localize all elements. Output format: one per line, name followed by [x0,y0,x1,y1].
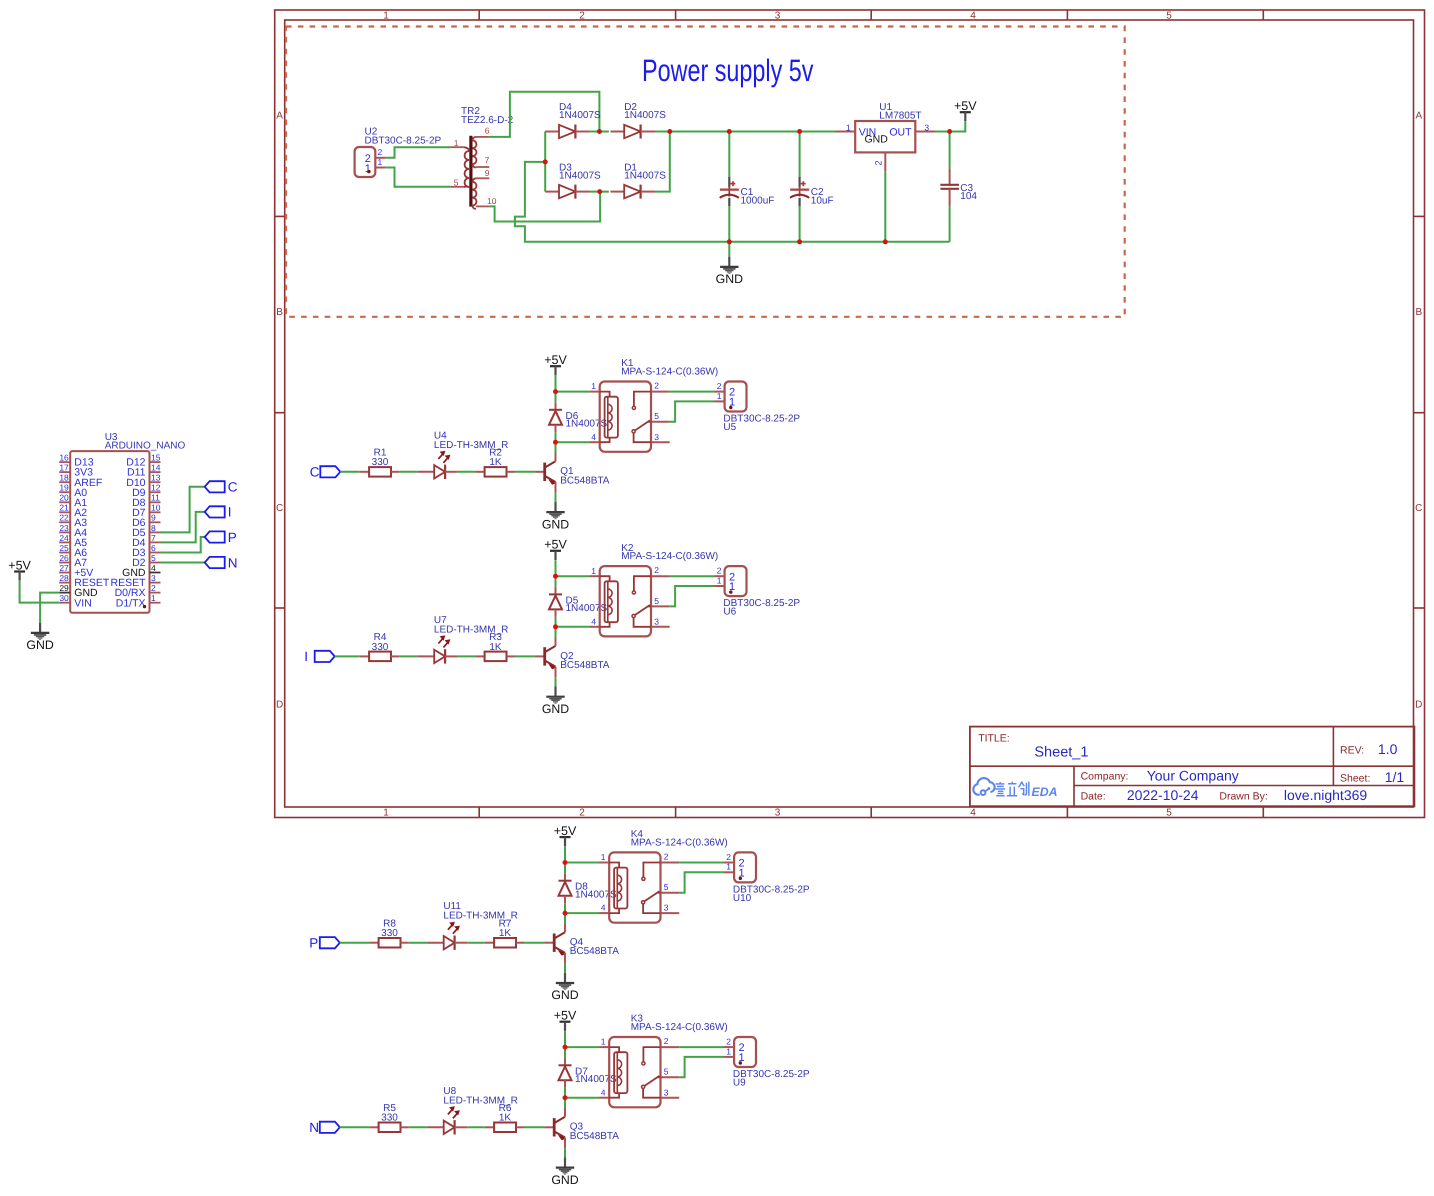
net label N row [309,1120,340,1135]
wire U4 to R2 [458,471,476,473]
svg-text:5: 5 [664,882,669,892]
resistor R6 1K [485,1103,524,1132]
svg-text:P: P [309,936,318,951]
svg-text:MPA-S-124-C(0.36W): MPA-S-124-C(0.36W) [621,367,718,378]
svg-text:4: 4 [591,616,596,626]
svg-text:Sheet:: Sheet: [1340,772,1370,784]
svg-text:18: 18 [59,473,69,483]
junction dots K2 row [553,574,558,579]
svg-text:1K: 1K [489,457,502,468]
svg-text:ARDUINO_NANO: ARDUINO_NANO [105,441,186,452]
wire top rail segment D4-D2 [590,131,609,133]
svg-text:1N4007S: 1N4007S [624,110,666,121]
svg-text:9: 9 [151,513,156,523]
wire K2 pin1 [556,575,591,577]
svg-text:19: 19 [59,483,69,493]
LED U7 LED-TH-3MM_R [418,615,508,664]
svg-text:27: 27 [59,563,69,573]
svg-text:GND: GND [551,1173,578,1187]
wire K4 pin5 to U10 pin1 [679,872,724,892]
svg-text:3: 3 [664,903,669,913]
svg-text:Power supply 5v: Power supply 5v [642,53,814,88]
junction dots power rails [727,129,732,134]
svg-text:Company:: Company: [1081,771,1129,783]
svg-text:VIN: VIN [74,597,92,609]
diode D1 1N4007S [610,162,666,198]
svg-text:2: 2 [717,566,722,576]
stub K3 pin1 [600,1046,610,1048]
wire node to Q1 collector [555,442,557,452]
wire R2 to Q1 base [515,471,535,473]
svg-text:P: P [228,530,237,545]
svg-text:BC548BTA: BC548BTA [570,946,620,957]
svg-text:Sheet_1: Sheet_1 [1034,745,1088,761]
svg-text:29: 29 [59,583,69,593]
svg-text:MPA-S-124-C(0.36W): MPA-S-124-C(0.36W) [631,1022,728,1033]
svg-text:C: C [228,480,238,495]
svg-text:28: 28 [59,573,69,583]
svg-text:1N4007S: 1N4007S [575,1074,617,1085]
wire R4 to U7 [399,655,418,657]
resistor R5 330 [369,1103,408,1132]
wire bridge left vertical [544,132,546,192]
junction dots bridge [597,129,602,134]
relay K1 MPA-S-124-C(0.36W) [591,358,718,452]
+5V power flag K2 row [544,538,567,560]
svg-text:2: 2 [717,381,722,391]
+5V power flag main [954,99,977,121]
wire R1 to U4 [399,471,418,473]
diode D2 1N4007S [610,102,666,138]
svg-text:GND: GND [26,638,53,652]
svg-text:1: 1 [591,381,596,391]
svg-text:1.0: 1.0 [1378,741,1398,757]
svg-text:C: C [1415,503,1422,514]
svg-text:C: C [310,465,320,480]
wire +5V to K1 pin1 node [555,376,557,392]
wire U11 to R7 [467,942,485,944]
wire node to diode D5 [555,576,557,587]
relay K3 MPA-S-124-C(0.36W) [601,1014,728,1108]
svg-text:5: 5 [654,596,659,606]
wire bridge bottom segment D3-D1 [590,191,609,193]
svg-text:1K: 1K [499,928,512,939]
svg-text:1: 1 [591,566,596,576]
svg-text:EDA: EDA [1031,786,1057,800]
svg-text:1/1: 1/1 [1385,769,1405,785]
svg-text:N: N [228,555,238,570]
wire K2 pin4 [556,626,591,628]
svg-text:25: 25 [59,543,69,553]
wire Q3 emitter to ground [564,1148,566,1157]
title block [970,727,1415,807]
+5V power flag Arduino [8,558,31,580]
svg-text:4: 4 [151,563,156,573]
ground GND Q3 [551,1157,578,1186]
svg-text:BC548BTA: BC548BTA [560,475,610,486]
wire diode D8 to K4 pin4 node [564,903,566,913]
wire U2 pin1 to TR2 pin5 [386,168,451,187]
svg-text:+5V: +5V [954,99,977,113]
wire U7 to R3 [458,655,476,657]
wire C to R1 [340,471,360,473]
wire I to R4 [335,655,360,657]
svg-text:6: 6 [151,543,156,553]
+5V power flag K3 row [554,1009,577,1031]
svg-text:1N4007S: 1N4007S [624,170,666,181]
transformer TR2 [450,106,513,209]
svg-text:2: 2 [664,852,669,862]
svg-text:2: 2 [579,808,585,819]
wire TR2 pin6 to bridge top [490,92,600,137]
sheet border frame [275,10,1425,819]
svg-text:21: 21 [59,503,69,513]
+5V power flag K1 row [544,353,567,375]
wire R5 to U8 [409,1126,428,1128]
svg-text:U9: U9 [733,1078,746,1089]
wire +5V to Arduino VIN [20,581,60,603]
wire Arduino GND down [40,593,59,623]
wire +5V to K4 pin1 node [564,847,566,863]
svg-text:5: 5 [664,1067,669,1077]
svg-text:1K: 1K [489,642,502,653]
svg-text:330: 330 [372,457,389,468]
wire R6 to Q3 base [524,1126,544,1128]
svg-text:DBT30C-8.25-2P: DBT30C-8.25-2P [365,135,442,146]
svg-text:1: 1 [601,1037,606,1047]
svg-text:love.night369: love.night369 [1284,787,1368,803]
svg-text:10: 10 [151,503,161,513]
svg-text:Your Company: Your Company [1147,767,1239,783]
wire diode D7 to K3 pin4 node [564,1088,566,1098]
capacitor C1 1000uF [720,132,775,242]
stub K1 pin1 [590,391,600,393]
svg-text:11: 11 [151,493,160,503]
wire K4 pin1 [565,862,600,864]
svg-text:3: 3 [775,808,781,819]
svg-text:2: 2 [726,852,731,862]
relay K2 MPA-S-124-C(0.36W) [591,543,718,637]
wire K1 pin4 [556,441,591,443]
wire center tap jog to ground rail [515,162,950,242]
svg-text:1: 1 [151,593,156,603]
EasyEDA logo [973,778,1057,799]
resistor R3 1K [475,632,514,661]
diode D7 1N4007S [559,1058,618,1088]
stub K4 pin4 [600,912,610,914]
svg-text:B: B [1415,307,1422,318]
connector U5 DBT30C-8.25-2P [715,381,801,433]
svg-text:N: N [309,1120,319,1135]
junction dots K1 row [553,389,558,394]
svg-text:3: 3 [654,616,659,626]
svg-text:MPA-S-124-C(0.36W): MPA-S-124-C(0.36W) [631,838,728,849]
wire node to diode D6 [555,392,557,403]
wire K4 pin4 [565,912,600,914]
+5V power flag K4 row [554,824,577,846]
wire diode D6 to K1 pin4 node [555,432,557,442]
svg-text:10uF: 10uF [811,196,834,207]
connector U6 DBT30C-8.25-2P [715,566,801,618]
wire Q4 emitter to ground [564,964,566,973]
svg-text:OUT: OUT [889,126,912,138]
wire node to diode D7 [564,1047,566,1058]
ground GND Arduino [26,623,53,652]
svg-text:12: 12 [151,483,161,493]
resistor R7 1K [485,918,524,947]
net label I row [304,649,335,664]
wire +5V to K3 pin1 node [564,1031,566,1047]
svg-text:3: 3 [654,432,659,442]
svg-text:4: 4 [970,808,976,819]
svg-text:5: 5 [1166,10,1172,21]
svg-text:1: 1 [601,852,606,862]
wire diode D5 to K2 pin4 node [555,617,557,627]
wire TR2 pin10 under bridge [490,192,600,222]
svg-text:LM7805T: LM7805T [879,111,921,122]
transformer secondary winding pins 6 7 [476,136,490,138]
transistor Q4 BC548BTA [544,923,619,963]
wire bridge right vertical (D1 out) [655,132,670,192]
transformer core [469,136,472,207]
wire P to R8 [340,942,370,944]
stub K2 pin4 [590,626,600,628]
svg-text:9: 9 [485,168,490,178]
svg-text:104: 104 [960,191,977,202]
junction dots K3 row [563,1045,568,1050]
wire K1 pin5 to U5 pin1 [670,401,715,421]
svg-text:1: 1 [365,163,371,175]
svg-text:2: 2 [664,1036,669,1046]
svg-text:Date:: Date: [1081,791,1106,803]
svg-text:REV:: REV: [1340,744,1364,756]
svg-text:17: 17 [59,463,69,473]
svg-text:330: 330 [381,928,398,939]
svg-text:30: 30 [59,593,69,603]
ground GND Q1 [542,502,569,531]
svg-text:D: D [276,700,283,711]
svg-text:7: 7 [151,533,156,543]
ground GND Q2 [542,687,569,716]
svg-text:A: A [1415,111,1422,122]
ground GND Q4 [551,973,578,1002]
svg-text:BC548BTA: BC548BTA [570,1131,620,1142]
capacitor C2 10uF [790,132,834,242]
svg-text:23: 23 [59,523,69,533]
diode D8 1N4007S [559,873,618,903]
net label C row [310,465,341,480]
LED U4 LED-TH-3MM_R [418,430,508,479]
svg-text:4: 4 [970,10,976,21]
diode D4 1N4007S [545,102,601,138]
svg-text:U10: U10 [733,893,752,904]
wire node to Q4 collector [564,913,566,923]
wire Arduino D3 to net P [161,537,205,553]
svg-text:1: 1 [383,808,389,819]
svg-text:22: 22 [59,513,69,523]
regulator U1 LM7805T [835,102,935,171]
svg-text:Drawn By:: Drawn By: [1219,791,1267,803]
svg-text:3: 3 [151,573,156,583]
svg-text:2: 2 [579,10,585,21]
svg-text:BC548BTA: BC548BTA [560,660,610,671]
svg-text:GND: GND [865,134,889,146]
wire K3 pin1 [565,1046,600,1048]
svg-text:D: D [1415,700,1422,711]
net label N at Arduino [205,555,238,570]
wire node to diode D8 [564,863,566,874]
svg-text:D1/TX: D1/TX [116,597,146,609]
ground GND power supply [716,257,743,286]
svg-text:3: 3 [924,122,929,132]
svg-text:1: 1 [378,157,383,167]
wire R3 to Q2 base [515,655,535,657]
svg-text:4: 4 [601,1087,606,1097]
svg-text:4: 4 [601,903,606,913]
wire K3 pin2 to U9 pin2 [679,1046,724,1048]
wire Q1 emitter to ground [555,493,557,502]
svg-text:10: 10 [487,196,497,206]
svg-text:1K: 1K [499,1113,512,1124]
LED U8 LED-TH-3MM_R [427,1086,517,1135]
svg-text:330: 330 [381,1113,398,1124]
wire U1 pin2 to ground rail [884,171,886,242]
svg-text:13: 13 [151,473,161,483]
svg-text:+5V: +5V [8,558,31,572]
wire K1 pin1 [556,391,591,393]
svg-text:1N4007S: 1N4007S [575,889,617,900]
svg-text:+5V: +5V [554,1009,577,1023]
net label I at Arduino [205,505,232,520]
transistor Q1 BC548BTA [535,453,610,493]
svg-text:GND: GND [542,517,569,531]
wire K4 pin2 to U10 pin2 [679,862,724,864]
transistor Q2 BC548BTA [535,637,610,677]
connector U10 DBT30C-8.25-2P [724,852,810,904]
wire node to Q2 collector [555,627,557,637]
svg-text:1N4007S: 1N4007S [566,603,608,614]
wire K2 pin2 to U6 pin2 [670,575,715,577]
svg-text:A: A [276,111,283,122]
svg-text:14: 14 [151,463,161,473]
wire R8 to U11 [409,942,428,944]
svg-text:U5: U5 [723,422,736,433]
wire Q2 emitter to ground [555,677,557,686]
svg-text:16: 16 [59,453,69,463]
svg-text:26: 26 [59,553,69,563]
ground rail GND symbol [728,242,730,257]
wire Arduino D5 to net C [161,487,205,533]
svg-text:1: 1 [383,10,389,21]
net label P row [309,936,340,951]
relay K4 MPA-S-124-C(0.36W) [601,829,728,923]
wire Arduino D4 to net I [161,512,205,543]
svg-text:6: 6 [485,125,490,135]
power supply dashed boundary box [286,27,1125,317]
svg-text:2: 2 [378,147,383,157]
svg-text:2022-10-24: 2022-10-24 [1127,787,1199,803]
svg-text:2: 2 [654,381,659,391]
svg-text:15: 15 [151,453,161,463]
svg-text:GND: GND [716,272,743,286]
transistor Q3 BC548BTA [544,1108,619,1148]
svg-text:2: 2 [654,565,659,575]
diode D6 1N4007S [549,402,608,432]
svg-text:1: 1 [726,862,731,872]
net label C at Arduino [205,480,238,495]
wire node to Q3 collector [564,1098,566,1108]
svg-text:330: 330 [372,642,389,653]
resistor R2 1K [475,448,514,477]
stub K2 pin1 [590,575,600,577]
resistor R8 330 [369,918,408,947]
wire U8 to R6 [467,1126,485,1128]
diode D5 1N4007S [549,587,608,617]
svg-text:5: 5 [654,411,659,421]
svg-text:1: 1 [846,122,851,132]
svg-text:B: B [276,307,283,318]
capacitor C3 104 [940,132,977,242]
resistor R4 330 [360,632,399,661]
stub K1 pin4 [590,441,600,443]
wire K1 pin2 to U5 pin2 [670,391,715,393]
svg-text:8: 8 [151,523,156,533]
wire D2 to U1 VIN rail [655,131,835,133]
svg-text:C: C [276,503,283,514]
wire Arduino D2 to net N [161,562,205,564]
LED U11 LED-TH-3MM_R [427,901,517,950]
svg-text:5: 5 [151,553,156,563]
svg-text:TITLE:: TITLE: [978,732,1010,744]
svg-text:1: 1 [454,138,459,148]
svg-text:2: 2 [874,160,884,165]
wire K3 pin4 [565,1097,600,1099]
stub K3 pin4 [600,1097,610,1099]
resistor R1 330 [360,448,399,477]
svg-text:1N4007S: 1N4007S [559,110,601,121]
svg-text:I: I [304,649,308,664]
wire U2 pin2 to TR2 pin1 [386,147,451,158]
wire R7 to Q4 base [524,942,544,944]
svg-text:3: 3 [775,10,781,21]
svg-text:2: 2 [726,1037,731,1047]
svg-text:1: 1 [726,1046,731,1056]
svg-text:U6: U6 [723,607,736,618]
svg-text:20: 20 [59,493,69,503]
svg-text:GND: GND [542,702,569,716]
svg-text:1N4007S: 1N4007S [566,419,608,430]
stub K4 pin1 [600,862,610,864]
Arduino U3 ARDUINO_NANO [59,432,185,613]
wire U1 OUT to +5V [935,122,965,132]
svg-text:2: 2 [151,583,156,593]
transformer secondary winding pins 9 10 [476,177,489,179]
svg-text:1000uF: 1000uF [741,196,775,207]
svg-text:3: 3 [664,1087,669,1097]
svg-text:GND: GND [551,988,578,1002]
svg-text:+5V: +5V [544,538,567,552]
svg-text:1: 1 [717,391,722,401]
connector U2 [355,126,442,177]
svg-text:1: 1 [717,575,722,585]
wire K2 pin5 to U6 pin1 [670,586,715,606]
svg-text:4: 4 [591,432,596,442]
svg-text:I: I [228,505,232,520]
connector U9 DBT30C-8.25-2P [724,1037,810,1089]
svg-text:+5V: +5V [544,353,567,367]
svg-text:MPA-S-124-C(0.36W): MPA-S-124-C(0.36W) [621,551,718,562]
diode D3 1N4007S [545,162,601,198]
